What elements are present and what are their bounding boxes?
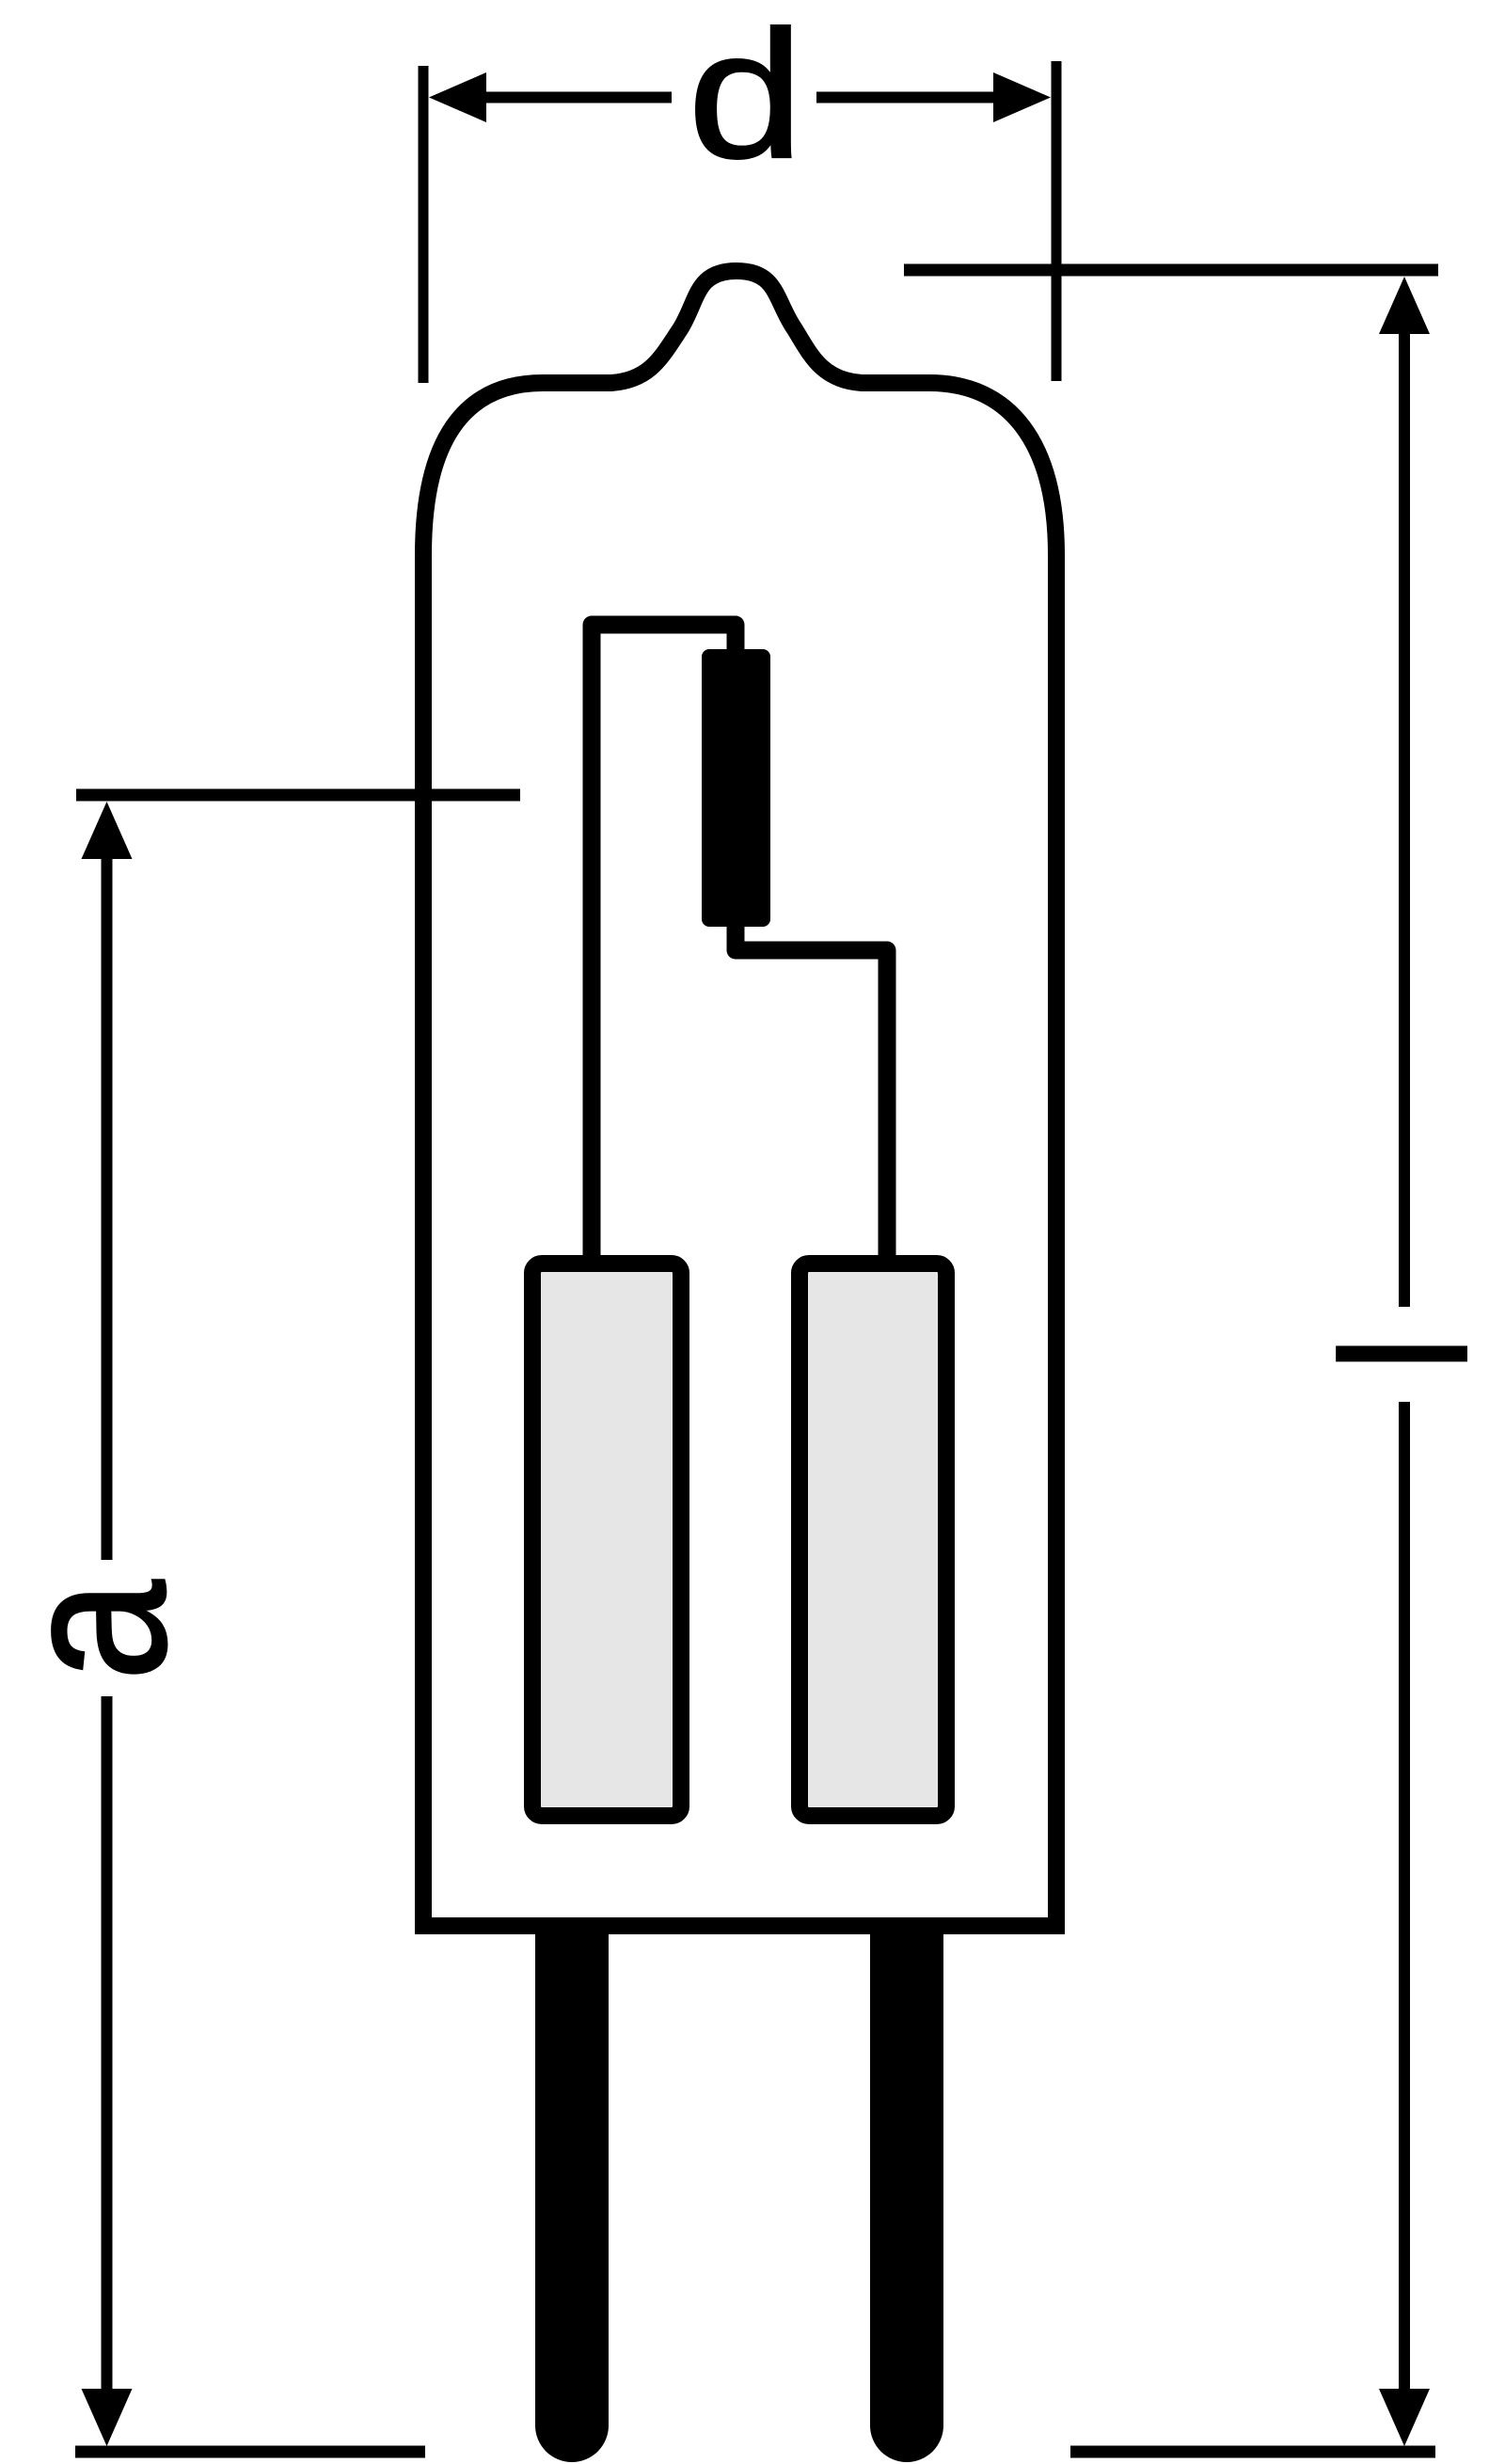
dimension d: line right segment — [816, 92, 1011, 103]
dimension l: line upper segment — [1399, 308, 1410, 1307]
lamp bulb outline — [423, 271, 1056, 1926]
lead wire left (filament support) — [592, 625, 736, 1265]
dimension d: right extension tick — [1052, 61, 1062, 381]
dimension a: top arrowhead — [82, 802, 133, 859]
dimension a: bottom arrowhead — [82, 2389, 133, 2446]
seal foil left — [532, 1264, 681, 1816]
dimension l: bottom arrowhead — [1379, 2389, 1430, 2446]
pin left — [535, 1926, 609, 2462]
bottom reference baseline left — [75, 2446, 425, 2458]
svg-text:d: d — [688, 0, 804, 197]
pin right — [870, 1926, 943, 2462]
dimension a: line lower segment — [102, 1696, 113, 2413]
dimension l: top arrowhead — [1379, 277, 1430, 334]
dimension d: right arrowhead — [993, 72, 1051, 122]
bottom reference baseline right — [1070, 2446, 1435, 2458]
dimension a: reference line at filament center — [76, 789, 520, 802]
dimension l: reference line at bulb top — [904, 264, 1438, 277]
filament — [702, 649, 770, 927]
dimension l: line lower segment — [1399, 1402, 1410, 2413]
seal foil right — [800, 1264, 946, 1816]
dimension d: line left segment — [470, 92, 672, 103]
dimension d: left extension tick — [419, 66, 429, 383]
lead wire right — [736, 903, 887, 1265]
dimension d: left arrowhead — [429, 72, 486, 122]
dimension a: line upper segment — [102, 833, 113, 1560]
svg-text:l: l — [1303, 1334, 1505, 1375]
svg-text:a: a — [0, 1580, 210, 1681]
